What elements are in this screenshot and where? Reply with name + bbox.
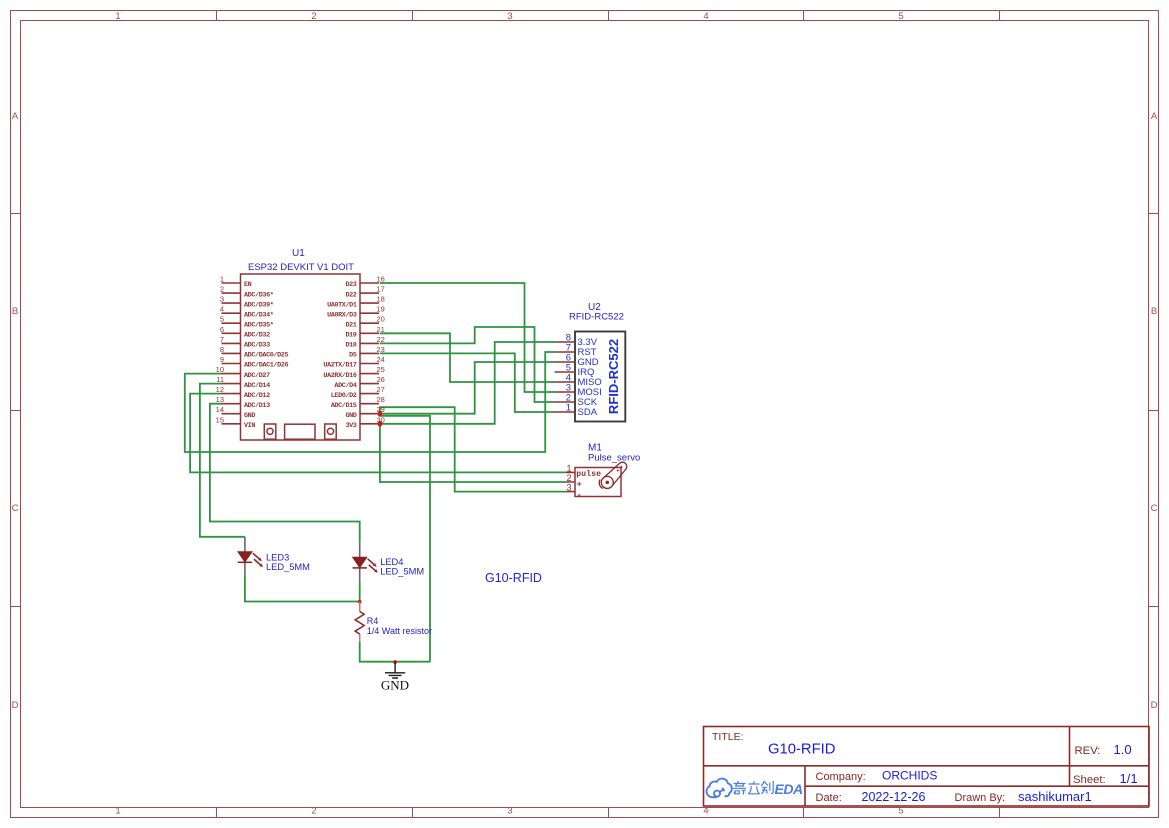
svg-text:VIN: VIN [244, 422, 255, 430]
ground [381, 662, 409, 693]
svg-text:-: - [577, 490, 582, 500]
wire LED4 to junction [359, 582, 361, 602]
svg-text:ADC/D4: ADC/D4 [334, 382, 356, 390]
svg-text:D22: D22 [345, 291, 356, 299]
svg-text:D: D [12, 700, 19, 711]
svg-text:3V3: 3V3 [345, 422, 356, 430]
wire R4 to ground rail [360, 642, 430, 662]
IC U1 ESP32 DEVKIT V1 DOIT [241, 248, 361, 440]
svg-text:4: 4 [220, 305, 224, 314]
wire D13 to LED4 [210, 404, 360, 543]
EDA logo text jia li chuang [733, 781, 773, 794]
wire 3V3 to RC522 3.3V [380, 342, 555, 424]
wire D27 to RST [185, 352, 555, 452]
svg-text:D21: D21 [345, 321, 356, 329]
svg-text:26: 26 [377, 375, 385, 384]
svg-text:C: C [12, 503, 19, 514]
svg-text:11: 11 [216, 375, 224, 384]
svg-text:ADC/D39*: ADC/D39* [244, 301, 274, 309]
svg-text:20: 20 [377, 315, 385, 324]
wire GND to ground rail [380, 416, 430, 662]
svg-text:6: 6 [220, 325, 224, 334]
svg-text:sashikumar1: sashikumar1 [1018, 789, 1092, 804]
svg-text:ADC/D27: ADC/D27 [244, 372, 270, 380]
junction node pin30 3V3 [378, 421, 383, 427]
svg-text:27: 27 [377, 385, 385, 394]
svg-text:ADC/D34*: ADC/D34* [244, 311, 274, 319]
junction node pin29 GND [378, 411, 383, 417]
svg-text:14: 14 [216, 405, 224, 414]
svg-text:Company:: Company: [816, 771, 866, 783]
svg-text:8: 8 [220, 345, 224, 354]
svg-text:Pulse_servo: Pulse_servo [588, 453, 640, 464]
svg-text:1: 1 [115, 806, 120, 817]
svg-text:30: 30 [377, 415, 385, 424]
LED LED3 LED_5MM [238, 537, 310, 577]
svg-text:13: 13 [216, 395, 224, 404]
svg-text:GND: GND [244, 412, 255, 420]
U1 left pins 1-15 [216, 275, 289, 431]
svg-text:RFID-RC522: RFID-RC522 [606, 339, 621, 414]
svg-text:3: 3 [220, 295, 224, 304]
svg-text:D5: D5 [349, 352, 357, 360]
svg-text:7: 7 [220, 335, 224, 344]
svg-text:D23: D23 [345, 281, 356, 289]
svg-text:16: 16 [377, 275, 385, 284]
svg-text:ADC/D32: ADC/D32 [244, 332, 270, 340]
svg-text:A: A [12, 111, 19, 122]
svg-text:ADC/D15: ADC/D15 [331, 402, 357, 410]
svg-text:ADC/D36*: ADC/D36* [244, 291, 274, 299]
svg-text:TITLE:: TITLE: [712, 731, 744, 743]
svg-text:C: C [1151, 503, 1158, 514]
svg-text:Sheet:: Sheet: [1073, 774, 1106, 786]
resistor R4 1/4 Watt [355, 602, 432, 643]
svg-text:UA0TX/D1: UA0TX/D1 [327, 301, 357, 309]
wire D19 to MISO [380, 333, 555, 382]
wire GND to servo minus [380, 407, 566, 491]
wire D5 to SDA [380, 353, 555, 412]
wire GND to RC522 GND [380, 362, 555, 414]
IC U2 RFID-RC522 [569, 302, 625, 422]
svg-text:SDA: SDA [578, 407, 598, 418]
svg-text:D18: D18 [345, 342, 356, 350]
svg-text:3: 3 [507, 11, 512, 22]
svg-text:UA2RX/D16: UA2RX/D16 [323, 372, 356, 380]
svg-text:3: 3 [566, 483, 571, 493]
svg-text:21: 21 [377, 325, 385, 334]
svg-text:R4: R4 [367, 616, 379, 626]
svg-text:17: 17 [377, 285, 385, 294]
svg-text:1: 1 [566, 403, 571, 414]
svg-text:9: 9 [220, 355, 224, 364]
svg-text:22: 22 [377, 335, 385, 344]
svg-text:GND: GND [345, 412, 356, 420]
junction node LED rail [358, 600, 362, 604]
svg-text:G10-RFID: G10-RFID [485, 571, 542, 585]
svg-text:2: 2 [220, 285, 224, 294]
svg-text:19: 19 [377, 305, 385, 314]
title block [704, 727, 1150, 807]
svg-text:UA0RX/D3: UA0RX/D3 [327, 311, 357, 319]
svg-text:12: 12 [216, 385, 224, 394]
svg-text:LED0/D2: LED0/D2 [331, 392, 357, 400]
svg-text:LED_5MM: LED_5MM [266, 562, 310, 572]
svg-text:ADC/DAC0/D25: ADC/DAC0/D25 [244, 352, 288, 360]
wire D18 to SCK [380, 327, 555, 402]
svg-text:1/1: 1/1 [1120, 771, 1138, 786]
wire LED3 to junction [245, 576, 360, 601]
svg-text:RFID-RC522: RFID-RC522 [569, 312, 624, 323]
LED LED4 LED_5MM [353, 542, 425, 582]
svg-text:ORCHIDS: ORCHIDS [882, 769, 937, 783]
svg-text:1: 1 [566, 463, 571, 473]
svg-text:24: 24 [377, 355, 385, 364]
svg-text:D19: D19 [345, 332, 356, 340]
svg-text:28: 28 [377, 395, 385, 404]
svg-text:A: A [1151, 111, 1158, 122]
servo motor M1 Pulse_servo [566, 443, 640, 500]
svg-text:1/4 Watt resistor: 1/4 Watt resistor [367, 626, 432, 636]
svg-text:4: 4 [703, 11, 708, 22]
svg-text:GND: GND [381, 678, 409, 693]
svg-text:+: + [577, 479, 582, 489]
wire D14 to LED3 [200, 384, 245, 537]
junction node ground [393, 660, 397, 664]
EDA logo cloud [707, 779, 732, 798]
svg-text:25: 25 [377, 365, 385, 374]
svg-text:4: 4 [703, 806, 708, 817]
svg-text:ADC/D33: ADC/D33 [244, 342, 270, 350]
svg-text:10: 10 [216, 365, 224, 374]
svg-text:Date:: Date: [816, 792, 842, 804]
svg-text:EDA: EDA [775, 781, 803, 797]
svg-text:ADC/D12: ADC/D12 [244, 392, 270, 400]
U1 mounting pads [264, 424, 336, 439]
svg-text:REV:: REV: [1075, 745, 1101, 757]
svg-text:23: 23 [377, 345, 385, 354]
svg-text:29: 29 [377, 405, 385, 414]
svg-text:ADC/D35*: ADC/D35* [244, 321, 274, 329]
svg-text:5: 5 [220, 315, 224, 324]
svg-text:1: 1 [115, 11, 120, 22]
svg-text:15: 15 [216, 415, 224, 424]
svg-text:B: B [1151, 306, 1157, 317]
svg-text:ADC/D13: ADC/D13 [244, 402, 270, 410]
svg-text:D: D [1151, 700, 1158, 711]
svg-text:2: 2 [311, 806, 316, 817]
svg-text:B: B [12, 306, 18, 317]
svg-text:ESP32 DEVKIT V1 DOIT: ESP32 DEVKIT V1 DOIT [248, 262, 354, 273]
wire D23 to MOSI [380, 283, 555, 392]
svg-text:5: 5 [898, 806, 903, 817]
svg-text:G10-RFID: G10-RFID [768, 742, 835, 758]
svg-text:2: 2 [311, 11, 316, 22]
svg-text:18: 18 [377, 295, 385, 304]
svg-text:2022-12-26: 2022-12-26 [862, 790, 926, 804]
svg-text:ADC/D14: ADC/D14 [244, 382, 270, 390]
svg-text:Drawn By:: Drawn By: [955, 792, 1006, 804]
wire D12 to servo pulse [190, 394, 566, 473]
svg-text:UA2TX/D17: UA2TX/D17 [323, 362, 356, 370]
wire 3V3 to servo plus [380, 424, 566, 482]
svg-text:pulse: pulse [576, 470, 601, 479]
svg-text:U1: U1 [292, 248, 305, 259]
svg-text:LED_5MM: LED_5MM [380, 566, 424, 576]
svg-text:5: 5 [898, 11, 903, 22]
U2 pins [555, 333, 602, 419]
U1 right pins 16-30 [323, 275, 384, 431]
svg-text:ADC/DAC1/D26: ADC/DAC1/D26 [244, 362, 288, 370]
svg-text:1.0: 1.0 [1114, 742, 1132, 757]
svg-text:1: 1 [220, 275, 224, 284]
svg-text:2: 2 [566, 473, 571, 483]
svg-text:EN: EN [244, 281, 252, 289]
svg-text:3: 3 [507, 806, 512, 817]
